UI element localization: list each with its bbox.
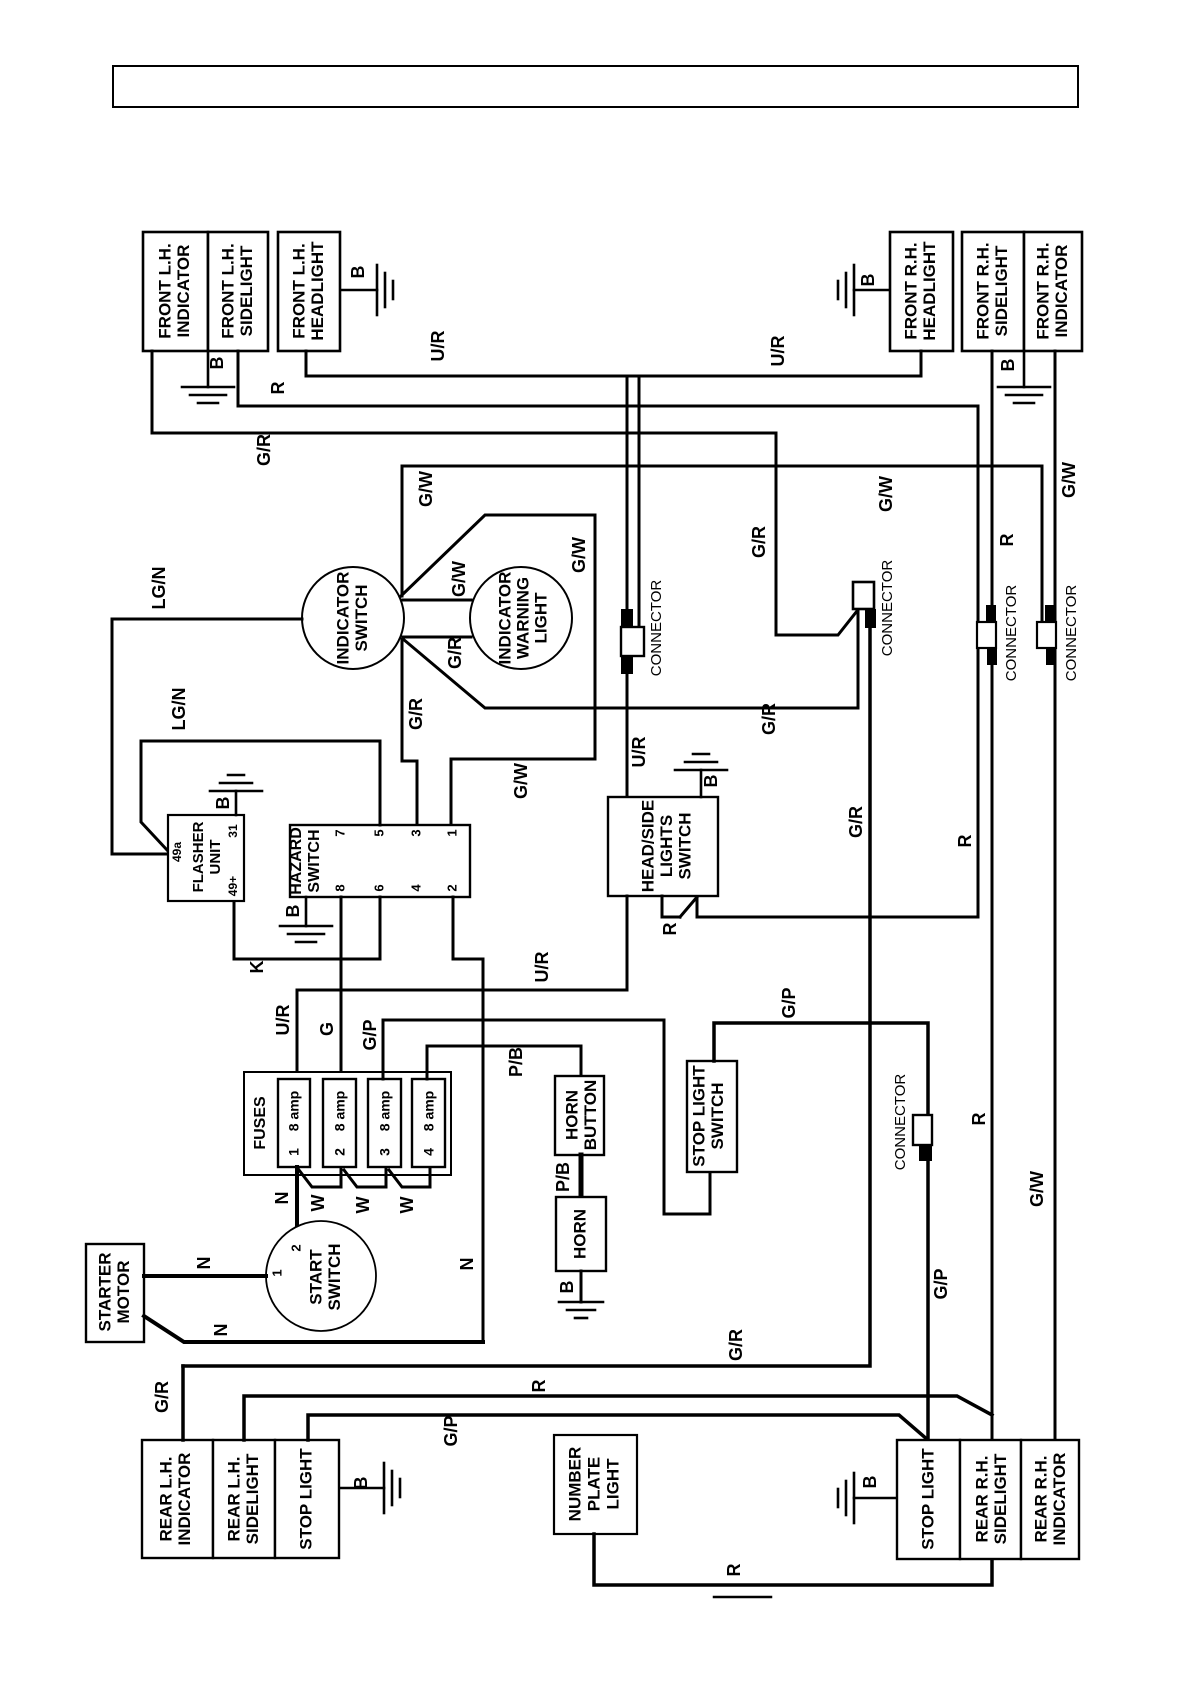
svg-text:W: W <box>308 1195 328 1212</box>
svg-text:N: N <box>272 1192 292 1205</box>
svg-text:INDICATOR: INDICATOR <box>1050 1453 1069 1546</box>
svg-text:U/R: U/R <box>532 952 552 983</box>
wire fuse link 1-2 <box>299 1168 341 1187</box>
lamp FRONT L.H. SIDELIGHT <box>208 232 268 351</box>
svg-text:SWITCH: SWITCH <box>325 1243 344 1310</box>
wire fuse link 2-3 <box>344 1168 386 1187</box>
indicator switch <box>302 567 404 669</box>
svg-text:SWITCH: SWITCH <box>708 1082 727 1149</box>
svg-text:START: START <box>306 1249 325 1305</box>
lamp FRONT L.H. INDICATOR <box>143 232 208 351</box>
svg-text:CONNECTOR: CONNECTOR <box>892 1074 909 1171</box>
svg-text:SWITCH: SWITCH <box>306 829 323 892</box>
svg-text:2: 2 <box>288 1244 303 1251</box>
wire G/W main <box>402 466 1042 622</box>
svg-text:SIDELIGHT: SIDELIGHT <box>243 1453 262 1544</box>
wire N fuse 1 to start switch <box>295 1167 299 1233</box>
svg-text:INDICATOR: INDICATOR <box>495 572 514 665</box>
svg-text:G: G <box>317 1022 337 1036</box>
svg-text:P/B: P/B <box>506 1047 526 1077</box>
svg-text:INDICATOR: INDICATOR <box>175 1453 194 1546</box>
svg-text:REAR L.H.: REAR L.H. <box>224 1457 243 1542</box>
svg-text:LG/N: LG/N <box>149 567 169 610</box>
svg-text:G/W: G/W <box>511 763 531 799</box>
svg-text:FRONT R.H.: FRONT R.H. <box>901 242 920 339</box>
ground horn <box>559 1301 603 1304</box>
svg-text:R: R <box>955 835 975 848</box>
svg-text:HORN: HORN <box>562 1090 581 1140</box>
connector C1 <box>621 609 633 627</box>
switch HEAD/SIDE LIGHTS <box>608 797 718 896</box>
svg-text:4: 4 <box>408 884 423 892</box>
svg-text:B: B <box>283 905 303 918</box>
svg-text:8 amp: 8 amp <box>377 1091 393 1131</box>
svg-text:1: 1 <box>269 1269 284 1276</box>
indicator warning light <box>470 567 572 669</box>
svg-text:CONNECTOR: CONNECTOR <box>1063 585 1080 682</box>
svg-text:G/P: G/P <box>931 1268 951 1299</box>
svg-text:SWITCH: SWITCH <box>675 812 694 879</box>
svg-text:INDICATOR: INDICATOR <box>1052 245 1071 338</box>
svg-text:G/R: G/R <box>749 526 769 558</box>
wire G/R front L.H. indicator <box>152 351 857 635</box>
starter motor <box>86 1244 144 1342</box>
svg-text:2: 2 <box>444 884 459 891</box>
svg-text:CONNECTOR: CONNECTOR <box>879 560 896 657</box>
wire G/W to warning light <box>403 599 471 602</box>
svg-text:HEADLIGHT: HEADLIGHT <box>308 241 327 341</box>
svg-text:LIGHT: LIGHT <box>603 1458 622 1510</box>
svg-text:B: B <box>858 274 878 287</box>
svg-text:R: R <box>660 923 680 936</box>
svg-text:G/W: G/W <box>876 476 896 512</box>
svg-text:HAZARD: HAZARD <box>288 827 305 895</box>
wire G hazard pin 8 <box>340 897 343 1079</box>
svg-text:BUTTON: BUTTON <box>581 1080 600 1151</box>
svg-text:G/R: G/R <box>726 1329 746 1361</box>
wire R front R.H. sidelight <box>991 351 994 1440</box>
svg-text:NUMBER: NUMBER <box>565 1447 584 1522</box>
svg-text:PLATE: PLATE <box>584 1457 603 1511</box>
svg-text:W: W <box>397 1197 417 1214</box>
svg-text:K: K <box>247 961 267 974</box>
wire U/R front headlights <box>306 351 921 376</box>
svg-text:G/R: G/R <box>406 698 426 730</box>
wire U/R below connector <box>626 674 629 797</box>
svg-text:STOP LIGHT: STOP LIGHT <box>296 1448 315 1550</box>
svg-text:REAR R.H.: REAR R.H. <box>1031 1456 1050 1543</box>
svg-text:3: 3 <box>377 1148 393 1156</box>
svg-text:2: 2 <box>332 1148 348 1156</box>
svg-text:5: 5 <box>371 829 386 836</box>
ground head/side lights switch <box>700 770 703 797</box>
wire G/P stop light switch <box>714 1023 928 1440</box>
fuse 1 8 amp <box>278 1079 310 1167</box>
lamp REAR R.H. SIDELIGHT <box>960 1440 1021 1559</box>
lamp REAR R.H. INDICATOR <box>1021 1440 1079 1559</box>
svg-text:G/P: G/P <box>441 1415 461 1446</box>
lamp STOP LIGHT rear right <box>897 1440 960 1559</box>
ground front L.H. headlight <box>341 289 377 292</box>
svg-text:G/R: G/R <box>254 434 274 466</box>
svg-text:4: 4 <box>421 1148 437 1156</box>
svg-text:R: R <box>529 1380 549 1393</box>
svg-text:U/R: U/R <box>428 331 448 362</box>
horn button <box>555 1076 604 1155</box>
wire G/R down from connector <box>183 628 870 1366</box>
svg-text:WARNING: WARNING <box>513 577 532 659</box>
wire R rear sidelights <box>244 1396 992 1440</box>
svg-text:STOP LIGHT: STOP LIGHT <box>918 1448 937 1550</box>
svg-text:REAR R.H.: REAR R.H. <box>972 1456 991 1543</box>
connector C3 <box>986 605 996 622</box>
svg-text:N: N <box>194 1257 214 1270</box>
svg-text:B: B <box>860 1476 880 1489</box>
svg-text:G/R: G/R <box>846 806 866 838</box>
wire G/W front R.H. indicator <box>1054 351 1057 1440</box>
wire mark <box>714 1596 771 1599</box>
svg-text:B: B <box>701 775 721 788</box>
wire G/P rear stop light <box>308 1415 928 1440</box>
fuse 4 8 amp <box>412 1079 445 1167</box>
start switch <box>266 1221 376 1331</box>
wire hazard pin 2 <box>453 897 483 1342</box>
wire U/R through switch <box>297 896 627 1079</box>
title box <box>113 66 1078 107</box>
svg-text:U/R: U/R <box>768 336 788 367</box>
svg-text:G/W: G/W <box>416 471 436 507</box>
svg-text:B: B <box>213 797 233 810</box>
svg-text:REAR L.H.: REAR L.H. <box>156 1457 175 1542</box>
svg-text:FRONT R.H.: FRONT R.H. <box>973 242 992 339</box>
ground flasher unit <box>235 791 238 815</box>
svg-text:LIGHTS: LIGHTS <box>657 815 676 877</box>
wire R front sidelight <box>238 351 978 916</box>
svg-text:MOTOR: MOTOR <box>114 1261 133 1324</box>
lamp REAR L.H. INDICATOR <box>142 1440 213 1558</box>
svg-text:LIGHT: LIGHT <box>531 592 550 644</box>
wire N starter motor to switch <box>144 1274 266 1278</box>
svg-text:FRONT L.H.: FRONT L.H. <box>218 243 237 338</box>
svg-text:SIDELIGHT: SIDELIGHT <box>992 245 1011 336</box>
svg-text:HORN: HORN <box>570 1209 589 1259</box>
svg-text:SWITCH: SWITCH <box>352 584 371 651</box>
svg-text:N: N <box>211 1324 231 1337</box>
svg-text:FLASHER: FLASHER <box>190 821 207 892</box>
lamp NUMBER PLATE LIGHT <box>554 1435 637 1534</box>
wire G/R switch diagonal <box>403 610 858 708</box>
svg-text:B: B <box>998 359 1018 372</box>
fuse 2 8 amp <box>323 1079 356 1167</box>
ground front L.H. lamps <box>207 351 210 387</box>
svg-text:SIDELIGHT: SIDELIGHT <box>991 1453 1010 1544</box>
wire B horn ground <box>580 1271 583 1302</box>
wire G/R rear L.H. indicator <box>181 1366 185 1440</box>
wire R number plate light <box>594 1534 992 1585</box>
lamp FRONT R.H. HEADLIGHT <box>890 232 953 351</box>
svg-text:B: B <box>207 357 227 370</box>
wire U/R drop to connector <box>626 376 629 612</box>
svg-text:LG/N: LG/N <box>169 688 189 731</box>
svg-text:G/P: G/P <box>779 987 799 1018</box>
ground rear left stop light <box>340 1487 384 1490</box>
lamp FRONT R.H. SIDELIGHT <box>962 232 1024 351</box>
svg-text:CONNECTOR: CONNECTOR <box>1003 585 1020 682</box>
svg-text:7: 7 <box>332 829 347 836</box>
fuse 3 8 amp <box>368 1079 401 1167</box>
wire LG/N indicator switch <box>112 619 302 854</box>
svg-text:FRONT R.H.: FRONT R.H. <box>1033 242 1052 339</box>
svg-text:8: 8 <box>332 884 347 891</box>
svg-text:CONNECTOR: CONNECTOR <box>648 580 665 677</box>
wire LG/N hazard pin 5 <box>141 741 380 851</box>
svg-text:INDICATOR: INDICATOR <box>174 245 193 338</box>
svg-text:G/R: G/R <box>152 1381 172 1413</box>
svg-text:G/W: G/W <box>1059 462 1079 498</box>
ground front R.H. headlight <box>854 289 889 292</box>
svg-text:P/B: P/B <box>553 1162 573 1192</box>
svg-text:49a: 49a <box>170 842 184 862</box>
ground front R.H. lamps <box>1023 351 1026 387</box>
svg-text:R: R <box>724 1564 744 1577</box>
svg-text:31: 31 <box>226 824 240 838</box>
wire fuse link 3-4 <box>389 1168 430 1187</box>
svg-text:N: N <box>457 1258 477 1271</box>
wire G/P fuse 3 <box>383 1020 710 1214</box>
svg-text:R: R <box>997 534 1017 547</box>
flasher unit <box>168 815 244 901</box>
svg-text:G/W: G/W <box>1027 1171 1047 1207</box>
wire P/B fuse 4 <box>427 1046 581 1079</box>
connector C4 <box>1045 605 1055 622</box>
svg-text:STARTER: STARTER <box>95 1252 114 1331</box>
wire K hazard pin 6 <box>234 897 380 959</box>
horn <box>556 1197 606 1271</box>
svg-text:FRONT L.H.: FRONT L.H. <box>155 243 174 338</box>
svg-text:U/R: U/R <box>273 1005 293 1036</box>
svg-text:G/P: G/P <box>360 1019 380 1050</box>
ground hazard switch <box>305 897 308 926</box>
svg-text:R: R <box>969 1113 989 1126</box>
switch STOP LIGHT <box>687 1061 737 1172</box>
svg-text:HEADLIGHT: HEADLIGHT <box>920 241 939 341</box>
wire G/W switch up <box>401 466 404 596</box>
svg-text:FRONT L.H.: FRONT L.H. <box>289 243 308 338</box>
switch HAZARD <box>290 825 470 897</box>
lamp FRONT L.H. HEADLIGHT <box>278 232 340 351</box>
wire P/B horn <box>579 1155 584 1197</box>
svg-text:INDICATOR: INDICATOR <box>333 572 352 665</box>
svg-text:G/W: G/W <box>449 561 469 597</box>
connector C2 <box>853 582 874 609</box>
svg-text:8 amp: 8 amp <box>421 1091 437 1131</box>
svg-text:49+: 49+ <box>226 876 240 896</box>
svg-text:SIDELIGHT: SIDELIGHT <box>237 245 256 336</box>
svg-text:B: B <box>557 1281 577 1294</box>
svg-text:8 amp: 8 amp <box>332 1091 348 1131</box>
svg-text:G/R: G/R <box>759 703 779 735</box>
connector C5 <box>913 1115 932 1145</box>
svg-text:G/W: G/W <box>569 537 589 573</box>
svg-text:6: 6 <box>371 884 386 891</box>
svg-text:3: 3 <box>408 829 423 836</box>
svg-text:U/R: U/R <box>629 737 649 768</box>
svg-text:1: 1 <box>444 829 459 836</box>
svg-text:8 amp: 8 amp <box>286 1091 302 1131</box>
fuse block <box>244 1072 451 1175</box>
wire N starter motor bottom <box>144 1316 483 1342</box>
svg-text:B: B <box>351 1477 371 1490</box>
wire G/R switch down <box>402 639 417 826</box>
svg-text:B: B <box>348 266 368 279</box>
svg-text:HEAD/SIDE: HEAD/SIDE <box>638 800 657 893</box>
lamp FRONT R.H. INDICATOR <box>1024 232 1082 351</box>
svg-text:UNIT: UNIT <box>207 840 224 875</box>
lamp STOP LIGHT rear left <box>275 1440 339 1558</box>
wire G/R to warning light <box>403 636 471 639</box>
wire G/W switch diagonal <box>401 515 595 826</box>
svg-text:1: 1 <box>286 1148 302 1156</box>
svg-text:FUSES: FUSES <box>252 1096 269 1150</box>
svg-text:W: W <box>353 1197 373 1214</box>
ground rear right stop light <box>854 1497 896 1500</box>
svg-text:G/R: G/R <box>445 637 465 669</box>
svg-text:STOP LIGHT: STOP LIGHT <box>689 1065 708 1167</box>
wire R head/side switch blade <box>662 896 680 917</box>
svg-text:R: R <box>268 382 288 395</box>
lamp REAR L.H. SIDELIGHT <box>213 1440 275 1558</box>
